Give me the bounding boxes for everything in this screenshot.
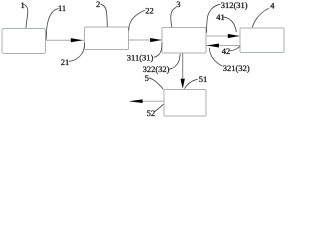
block 4 (240, 28, 284, 53)
leader for 2 (101, 4, 108, 27)
svg-text:5: 5 (145, 73, 149, 83)
svg-text:22: 22 (145, 6, 154, 16)
leader for 21 (69, 43, 85, 62)
leader for 52 (154, 104, 163, 112)
svg-text:321(32): 321(32) (223, 63, 250, 73)
wire block3 to block5 (vertical) (182, 53, 184, 80)
svg-text:11: 11 (58, 3, 66, 13)
leader for 42 (230, 46, 241, 51)
svg-text:21: 21 (61, 57, 70, 67)
block 3 (162, 28, 206, 54)
svg-text:312(31): 312(31) (221, 0, 248, 10)
leader for 22 (129, 10, 145, 30)
block 1 (2, 29, 46, 54)
wire block1 to block2 (46, 39, 85, 41)
arrowhead into block3 left (150, 38, 161, 42)
arrowhead into block2 (71, 38, 83, 42)
wire block4 to block3 (bottom) (207, 45, 241, 47)
leader for 4 (252, 8, 269, 27)
leader for 322(32) (169, 54, 181, 70)
leader for 41 (223, 17, 237, 32)
svg-text:311(31): 311(31) (127, 52, 154, 62)
svg-text:3: 3 (176, 0, 180, 9)
wire block3 to block4 (top) (206, 35, 240, 37)
svg-text:2: 2 (96, 0, 100, 9)
leader for 311(31) (154, 43, 162, 58)
leader for 3 (171, 7, 177, 27)
leader for 312(31) (207, 4, 221, 33)
leader for 1 (24, 5, 28, 29)
arrowhead into block4 (228, 34, 240, 38)
svg-text:4: 4 (270, 1, 275, 11)
wire block2 to block3 (129, 39, 163, 41)
svg-text:51: 51 (199, 74, 208, 84)
block 5 (164, 90, 206, 117)
leader for 11 (46, 9, 58, 40)
leader for 321(32) (209, 48, 222, 66)
svg-text:42: 42 (222, 46, 231, 56)
arrowhead output of block5 (129, 99, 143, 103)
wire block5 output (left) (142, 100, 164, 102)
leader for 5 (149, 78, 164, 89)
svg-text:52: 52 (147, 108, 156, 118)
arrowhead into block3 right (207, 44, 219, 48)
block 2 (85, 27, 129, 50)
arrowhead into block5 top (181, 79, 185, 89)
leader for 51 (185, 79, 198, 88)
